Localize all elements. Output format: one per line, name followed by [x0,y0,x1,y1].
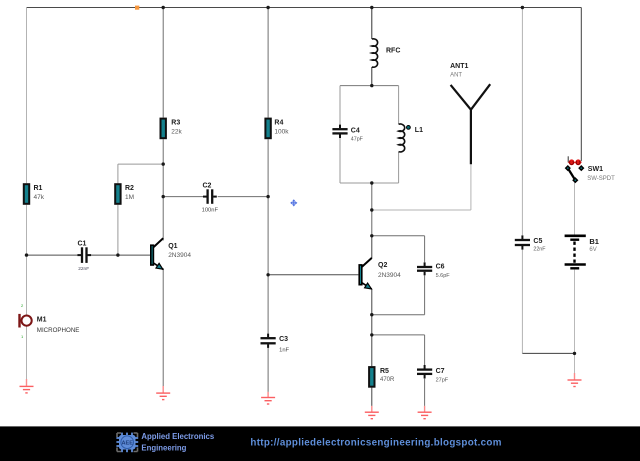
svg-text:6V: 6V [589,247,596,253]
svg-text:2: 2 [21,303,24,308]
wire rail to SW1 throw [580,8,582,162]
node rail-RFC [370,6,373,9]
ground (microphone) [20,379,34,393]
resistor R3 [161,119,166,139]
resistor R1 [24,184,29,204]
node R2-base [116,253,119,256]
svg-text:22nF: 22nF [78,266,89,272]
wire antenna node to C6 node [371,210,373,236]
svg-text:2N3904: 2N3904 [168,252,191,259]
wire C1 node to C1 left [27,254,78,256]
svg-text:AEE: AEE [121,440,133,446]
wire C6 to emitter row [424,275,426,315]
svg-text:47k: 47k [34,194,45,201]
svg-text:L1: L1 [415,127,423,134]
svg-text:Q1: Q1 [168,243,177,250]
microphone M1 [18,314,31,328]
svg-text:R5: R5 [380,368,389,375]
wire rail to R4 [267,8,269,118]
wire R3 to Q1 collector [162,139,164,240]
wire R1 bottom to C1 node [26,205,28,255]
svg-text:M1: M1 [37,317,47,324]
wire rail to RFC [371,8,373,40]
footer logo AEE chip [116,433,138,453]
svg-text:ANT: ANT [450,73,462,79]
origin marker (orange) [135,6,139,10]
svg-text:47pF: 47pF [351,136,364,142]
wire R5 to ground [371,388,373,406]
M1 pin marks (green) [21,303,24,339]
svg-text:RFC: RFC [386,48,400,55]
svg-text:C4: C4 [351,127,360,134]
transistor Q2 [359,258,372,289]
wire tank left edge (C4 branch) [339,86,341,183]
svg-text:B1: B1 [589,237,599,246]
wire collector to C6 top [372,235,425,237]
capacitor C3 [261,334,276,348]
wire R2 to collector node [118,163,163,165]
svg-text:R2: R2 [125,185,134,192]
node tank top [370,84,373,87]
node tank bottom [370,181,373,184]
wire tank bottom to antenna node [371,183,373,210]
svg-text:Engineering: Engineering [141,444,186,453]
wire Q1 emitter to ground [162,268,164,386]
node emitter-C7-R5 [370,333,373,336]
node collector-C2 [162,195,165,198]
node C2-R4 [266,195,269,198]
wire rail to R3 [162,8,164,118]
ground (C3) [261,392,275,404]
svg-text:22nF: 22nF [533,247,546,253]
capacitor C4 [332,125,347,138]
node antenna [370,208,373,211]
svg-text:R1: R1 [34,185,43,192]
pan cursor (blue) [290,199,297,206]
wire tank bottom edge [340,182,399,184]
capacitor C1 [77,247,91,263]
svg-text:1nF: 1nF [279,348,289,354]
wire C2 to R4 node [218,196,268,198]
wire top VCC rail [27,7,582,9]
ground (Q1 emitter) [156,386,170,400]
battery B1 [565,236,586,268]
wire RFC to tank top [371,67,373,86]
ground (C7) [418,406,432,419]
svg-text:C6: C6 [436,263,445,270]
svg-text:MICROPHONE: MICROPHONE [37,327,80,334]
svg-text:C5: C5 [533,238,542,245]
capacitor C2 [203,189,217,204]
svg-text:100k: 100k [274,129,289,136]
wire rail to C5 [521,8,523,236]
transistor Q1 [151,238,163,269]
inductor L1 [399,124,405,152]
node ground bus [573,352,576,355]
svg-text:SW1: SW1 [588,166,603,173]
wire C5 to bottom node [521,250,523,354]
wire up to antenna [470,164,472,210]
svg-text:100nF: 100nF [202,208,219,214]
svg-text:1: 1 [21,334,24,339]
resistor R5 [369,367,374,387]
wire emitter node to C7 [372,334,425,336]
resistor R4 [265,119,270,139]
node rail-C5 [521,6,524,9]
svg-text:C7: C7 [436,368,445,375]
wire down to C6 [424,236,426,262]
svg-text:R3: R3 [171,120,180,127]
capacitor C7 [417,365,432,379]
wire C6 node to Q2 collector [371,236,373,258]
wire Q2 emitter down to R5 [371,290,373,367]
antenna ANT1 [451,84,491,164]
wire R4 bottom through base node to C3 [267,139,269,333]
wire C3 to ground [267,348,269,392]
wire down to C7 [424,335,426,365]
svg-text:R4: R4 [274,120,283,127]
svg-text:http://appliedelectronicsengin: http://appliedelectronicsengineering.blo… [250,438,501,449]
wire B1 to bottom node [574,270,576,354]
svg-text:1M: 1M [125,194,134,201]
inductor RFC [372,39,378,67]
wire left column top to R1 [26,8,28,184]
svg-text:ANT1: ANT1 [450,63,468,70]
wire C7 to ground [424,379,426,406]
svg-text:C2: C2 [203,182,212,189]
wire C6 bottom to emitter [372,314,425,316]
wire R2 bottom to base node [117,205,119,255]
svg-text:22k: 22k [171,129,182,136]
wire SW1 pole to B1 [574,181,576,235]
capacitor C5 [515,235,530,249]
wire C1 right to Q1 base [91,254,150,256]
svg-text:Applied Electronics: Applied Electronics [141,432,214,441]
wire antenna node right [372,209,471,211]
wire base node to Q2 base [268,274,358,276]
node R1-C1 [25,253,28,256]
svg-text:Q2: Q2 [378,262,387,269]
node emitter-C6 [370,313,373,316]
svg-text:5.6pF: 5.6pF [436,273,451,279]
node collector-C6 [370,234,373,237]
wire collector node to C2 [163,196,203,198]
svg-text:470R: 470R [380,377,395,383]
svg-text:2N3904: 2N3904 [378,272,401,279]
resistor R2 [115,184,120,204]
ground (R5) [365,406,379,419]
node R4-Q2base [266,273,269,276]
wire C1 node to M1 [26,255,28,315]
node R2-collector [162,162,165,165]
svg-text:C1: C1 [78,240,87,247]
node rail-R3 [162,6,165,9]
svg-text:C3: C3 [279,336,288,343]
wire bottom node row [522,352,574,354]
svg-text:SW-SPDT: SW-SPDT [587,176,615,182]
wire R2 top up [117,164,119,183]
switch SW1 [565,156,585,183]
svg-text:27pF: 27pF [436,378,449,384]
wire bottom node to ground [574,353,576,373]
wire M1 to ground [26,326,28,379]
wire tank circuit top edge [340,85,399,87]
footer black bar [0,426,640,461]
L1 pin node [407,126,411,130]
wire tank right edge (L1 branch) [398,86,400,183]
node rail-R4 [266,6,269,9]
capacitor C6 [417,262,432,275]
ground (battery) [568,373,582,387]
